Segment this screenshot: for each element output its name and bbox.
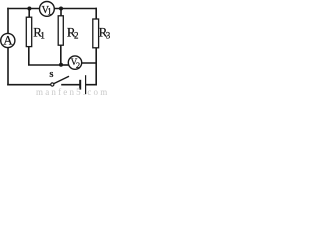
- wire left vertical lower (ammeter to bottom rail): [7, 48, 9, 85]
- svg-text:manfen5.com: manfen5.com: [36, 87, 109, 96]
- wire top rail left segment: [8, 8, 40, 10]
- wire top rail right segment: [54, 8, 96, 10]
- svg-text:S: S: [49, 70, 53, 79]
- wire right vertical (top corner to R3): [95, 9, 97, 20]
- svg-text:2: 2: [76, 60, 80, 70]
- wire switch fixed contact to battery: [62, 84, 79, 86]
- voltmeter V2: [68, 56, 81, 69]
- switch S pivot: [51, 83, 54, 86]
- battery positive plate (long thin): [85, 75, 87, 94]
- svg-text:1: 1: [47, 6, 52, 16]
- voltmeter V1: [40, 1, 55, 16]
- wire R1 branch top: [28, 9, 30, 18]
- svg-text:3: 3: [106, 30, 111, 40]
- svg-text:A: A: [3, 32, 13, 47]
- svg-text:1: 1: [40, 30, 45, 40]
- node junction dot top R2: [59, 7, 63, 11]
- node junction dot middle rail R2 bottom: [59, 63, 63, 67]
- wire left vertical upper (corner to ammeter): [7, 9, 9, 34]
- wire R2 branch top: [60, 9, 62, 16]
- node junction dot top R1: [27, 7, 31, 11]
- resistor R1: [26, 17, 31, 46]
- wire V2 right terminal to right rail: [82, 62, 97, 64]
- wire R2 branch bottom: [60, 45, 62, 65]
- wire right vertical (R3 bottom to bottom rail corner): [86, 48, 96, 85]
- switch S blade: [54, 76, 69, 83]
- resistor R2: [58, 16, 63, 45]
- resistor R3: [93, 19, 99, 48]
- wire bottom rail left (to switch pivot): [8, 84, 51, 86]
- wire R1 branch bottom with corner to middle rail: [29, 47, 61, 65]
- battery negative plate (short thick): [79, 80, 81, 90]
- svg-text:2: 2: [74, 30, 79, 40]
- wire middle rail to V2: [61, 64, 68, 66]
- ammeter A: [1, 33, 15, 47]
